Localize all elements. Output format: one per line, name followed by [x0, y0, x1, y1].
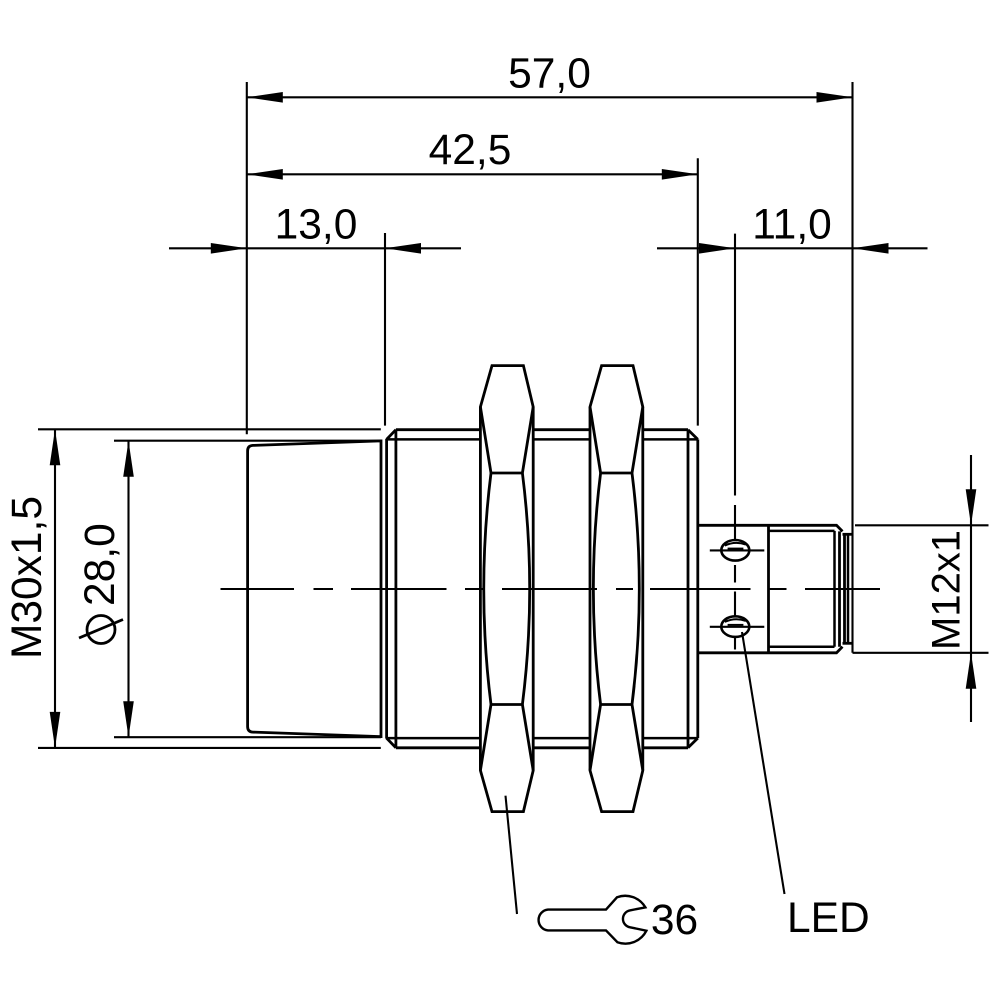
- dimension line 42,5: [247, 173, 698, 175]
- M12 tip left edge: [843, 534, 846, 643]
- arrow M12 top: [966, 489, 977, 525]
- arrow d28 top: [123, 441, 134, 477]
- wrench symbol SW36: [539, 896, 647, 944]
- collar edge between cup and thread: [385, 439, 388, 739]
- LED crosshair upper: [710, 549, 765, 551]
- connector knurl inner line bottom: [769, 645, 835, 648]
- svg-text:42,5: 42,5: [429, 127, 512, 174]
- connector knurl inner line top: [769, 530, 835, 533]
- extension line M12 bottom: [853, 652, 989, 654]
- extension line front face: [246, 82, 248, 434]
- barrel right end face: [696, 439, 699, 738]
- arrow 13,0 right: [385, 243, 421, 254]
- extension line M12 top: [855, 524, 989, 526]
- arrow M30 bottom: [50, 712, 61, 748]
- barrel thread root line top: [387, 438, 698, 441]
- extension line M30 top: [38, 428, 381, 430]
- M12 tip bottom edge: [843, 642, 853, 645]
- connector left edge: [767, 525, 770, 653]
- rear flange and connector top edge: [698, 525, 843, 531]
- arrow 57,0 right: [817, 92, 853, 103]
- leader line to nut: [506, 796, 518, 914]
- extension line d28 bottom: [114, 736, 381, 738]
- dimension line 57,0: [247, 96, 853, 98]
- extension line sensor rear: [851, 82, 853, 653]
- connector right face: [838, 531, 841, 646]
- M12 tip thread edge: [847, 534, 850, 643]
- dimension line 11,0: [657, 247, 928, 249]
- thread chamfer left bottom: [387, 738, 396, 748]
- extension line d28 top: [114, 440, 381, 442]
- dimension line M30: [54, 429, 56, 748]
- connector inner edge: [833, 531, 836, 647]
- arrow M12 bottom: [966, 653, 977, 689]
- arrow d28 bottom: [123, 701, 134, 737]
- LED lower: [721, 616, 749, 637]
- extension line flange LED axis: [734, 234, 736, 496]
- dimension line d28: [127, 441, 129, 738]
- sensor front cup (active face, tapered sleeve): [248, 441, 381, 737]
- LED axis centerline: [734, 505, 736, 650]
- hex nut 1: [480, 366, 533, 812]
- svg-text:M30x1,5: M30x1,5: [4, 496, 51, 659]
- svg-text:28,0: 28,0: [77, 523, 124, 606]
- main axis centerline: [221, 588, 881, 590]
- barrel thread crest line bottom: [396, 746, 688, 749]
- arrow 11,0 right: [853, 243, 889, 254]
- M12 tip top edge: [843, 533, 853, 536]
- thread chamfer left top: [387, 430, 396, 440]
- rear flange and connector bottom edge: [698, 647, 843, 653]
- svg-text:36: 36: [651, 897, 698, 944]
- arrow M30 top: [50, 429, 61, 465]
- LED upper: [721, 540, 749, 561]
- leader line to LED label: [742, 632, 785, 894]
- LED crosshair lower: [710, 626, 765, 628]
- svg-text:11,0: 11,0: [752, 201, 832, 248]
- arrow 13,0 left: [211, 243, 247, 254]
- arrow 42,5 right: [662, 169, 698, 180]
- thread chamfer right bottom: [688, 738, 698, 748]
- barrel left end face: [394, 430, 397, 748]
- arrow 57,0 left: [247, 92, 283, 103]
- barrel thread crest line top: [396, 428, 688, 431]
- svg-text:LED: LED: [787, 895, 870, 942]
- arrow 42,5 left: [247, 169, 283, 180]
- thread chamfer right top: [688, 430, 698, 440]
- extension line M30 bottom: [38, 747, 381, 749]
- barrel inner right edge: [687, 430, 690, 748]
- svg-text:M12x1: M12x1: [925, 530, 969, 650]
- svg-text:13,0: 13,0: [275, 201, 358, 248]
- dimension line 13,0: [169, 247, 461, 249]
- hex nut 2: [590, 366, 643, 812]
- arrow 11,0 left: [699, 243, 735, 254]
- dimension line M12: [970, 455, 972, 722]
- svg-text:57,0: 57,0: [508, 50, 591, 97]
- diameter symbol for 28,0: [79, 616, 123, 644]
- barrel thread root line bottom: [387, 737, 698, 740]
- extension line cup rear: [384, 233, 386, 426]
- extension line barrel end: [697, 158, 699, 425]
